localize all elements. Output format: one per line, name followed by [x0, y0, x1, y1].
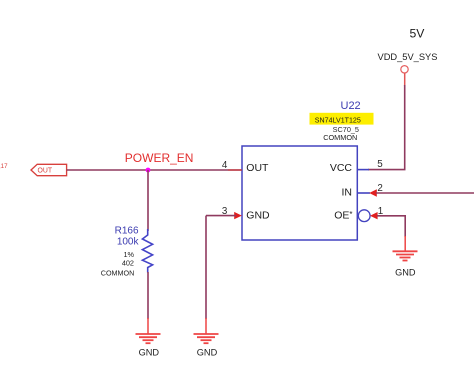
- svg-text:OUT: OUT: [246, 162, 269, 174]
- svg-text:POWER_EN: POWER_EN: [125, 151, 194, 165]
- svg-text:8,17: 8,17: [0, 163, 8, 170]
- pin 2 IN arrow: [369, 189, 377, 196]
- pin number 1: [378, 206, 383, 217]
- ground GND2 under pin3: [194, 318, 219, 343]
- tolerance label 1%: [123, 250, 134, 259]
- pin number 5: [377, 159, 383, 170]
- pin 3 GND arrow: [234, 212, 242, 219]
- pin number 2: [377, 183, 382, 194]
- wire GND pin3 vertical: [205, 216, 207, 319]
- wire VDD_5V_SYS vertical to VCC: [404, 73, 406, 169]
- pin 5 VCC stub: [357, 169, 369, 171]
- reference designator U22: [341, 100, 361, 112]
- pin number 4: [222, 160, 228, 171]
- pin 4 OUT stub: [228, 169, 242, 171]
- pin label IN: [342, 186, 353, 198]
- part number SN74LV1T125: [315, 116, 361, 124]
- resistor R166: [142, 229, 152, 273]
- ground label GND3: [395, 267, 416, 277]
- pin 2 IN stub: [357, 192, 370, 194]
- svg-text:5: 5: [377, 159, 383, 170]
- net label VDD_5V_SYS: [378, 52, 438, 62]
- power symbol VDD_5V_SYS circle: [401, 66, 408, 73]
- value label 100k: [117, 236, 140, 247]
- svg-text:COMMON: COMMON: [101, 268, 135, 277]
- sheet reference 8,17: [0, 163, 8, 170]
- svg-text:GND: GND: [246, 209, 270, 221]
- variant label COMMON: [323, 133, 357, 142]
- ground label GND2: [197, 347, 218, 357]
- value label R166: [115, 226, 139, 237]
- wire OE horizontal: [377, 215, 406, 217]
- ground GND1 under R166: [136, 318, 161, 343]
- IC U22 body: [242, 146, 357, 240]
- wire R166 to ground: [147, 272, 149, 319]
- svg-text:IN: IN: [342, 186, 353, 198]
- ground GND3 under OE: [393, 236, 418, 261]
- ground label GND1: [139, 347, 160, 357]
- pin 1 OE arrow: [370, 212, 378, 219]
- svg-text:100k: 100k: [117, 236, 140, 247]
- svg-text:COMMON: COMMON: [323, 133, 357, 142]
- package label SC70_5: [333, 125, 359, 134]
- svg-text:VDD_5V_SYS: VDD_5V_SYS: [378, 52, 438, 62]
- port OUT: [31, 164, 67, 175]
- svg-text:SN74LV1T125: SN74LV1T125: [315, 116, 361, 124]
- net label POWER_EN: [125, 151, 194, 165]
- size label 402: [122, 259, 134, 268]
- svg-text:OE*: OE*: [334, 209, 352, 221]
- wire OE vertical to ground: [404, 216, 406, 237]
- pin 1 OE bubble: [358, 210, 370, 222]
- wire POWER_EN down to R166: [147, 170, 149, 231]
- pin label OUT: [246, 162, 269, 174]
- power net label 5V: [410, 27, 426, 41]
- pin number 3: [222, 206, 228, 217]
- yellow highlight box: [310, 113, 374, 125]
- svg-text:OUT: OUT: [38, 167, 53, 174]
- variant label COMMON (resistor): [101, 268, 135, 277]
- svg-text:4: 4: [222, 160, 228, 171]
- svg-text:GND: GND: [139, 347, 160, 357]
- wire VCC pin5 to power trunk: [368, 169, 406, 171]
- pin label VCC: [330, 162, 353, 174]
- svg-text:VCC: VCC: [330, 162, 353, 174]
- pin label GND: [246, 209, 270, 221]
- svg-text:R166: R166: [115, 226, 139, 237]
- svg-text:5V: 5V: [410, 27, 426, 41]
- junction node POWER_EN: [146, 168, 151, 173]
- svg-text:402: 402: [122, 259, 134, 268]
- pin label OE*: [334, 209, 352, 221]
- wire GND pin3 horizontal: [206, 215, 236, 217]
- svg-text:U22: U22: [341, 100, 361, 112]
- svg-text:GND: GND: [395, 267, 416, 277]
- svg-text:GND: GND: [197, 347, 218, 357]
- wire IN to sheet edge: [376, 192, 474, 194]
- wire POWER_EN horizontal: [67, 169, 242, 171]
